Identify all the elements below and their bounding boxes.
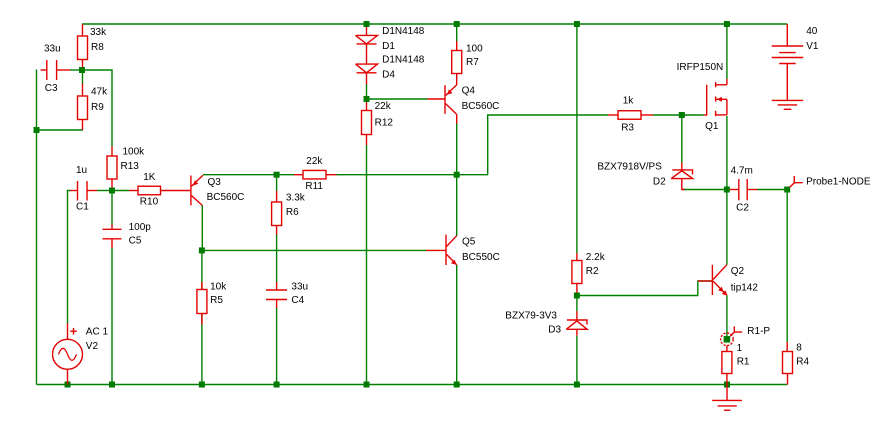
wire junction column R13/C5 bbox=[111, 191, 113, 225]
label Q4 bbox=[462, 86, 500, 113]
svg-text:R8: R8 bbox=[91, 42, 104, 53]
svg-text:AC 1: AC 1 bbox=[86, 327, 109, 338]
svg-text:V2: V2 bbox=[86, 341, 99, 352]
wire R3 right to Q1 gate bbox=[653, 114, 704, 116]
label R2 bbox=[586, 252, 606, 277]
node junction top rail Q1 drain bbox=[724, 21, 730, 27]
svg-text:10k: 10k bbox=[210, 282, 227, 293]
capacitor C1 1u bbox=[70, 181, 109, 201]
node junction V2 bottom rail bbox=[65, 382, 71, 388]
svg-text:V1: V1 bbox=[806, 41, 819, 52]
svg-text:D2: D2 bbox=[653, 177, 666, 188]
svg-text:R12: R12 bbox=[375, 118, 394, 129]
resistor R2 2.2k bbox=[572, 253, 582, 293]
svg-text:100p: 100p bbox=[129, 222, 152, 233]
label Q3 bbox=[207, 177, 245, 203]
svg-text:D1N4148: D1N4148 bbox=[382, 26, 425, 37]
wire D3 top lead bbox=[576, 296, 578, 312]
svg-text:22k: 22k bbox=[375, 101, 392, 112]
node junction left vertical/R9 bbox=[34, 127, 40, 133]
wire R7 top lead from rail bbox=[456, 24, 458, 41]
label R12 bbox=[375, 101, 394, 129]
svg-text:22k: 22k bbox=[306, 156, 323, 167]
svg-text:C1: C1 bbox=[76, 202, 89, 213]
svg-text:BZX7918V/PS: BZX7918V/PS bbox=[597, 162, 662, 173]
label V1 bbox=[806, 26, 819, 52]
svg-text:D4: D4 bbox=[382, 70, 395, 81]
label D4 bbox=[382, 55, 425, 81]
svg-text:33u: 33u bbox=[291, 282, 308, 293]
wire R12 bottom to rail bbox=[366, 145, 368, 385]
label D2 bbox=[597, 162, 666, 188]
svg-text:C3: C3 bbox=[45, 83, 58, 94]
svg-text:R1-P: R1-P bbox=[747, 326, 770, 337]
label C3 bbox=[44, 44, 61, 95]
label R9 bbox=[91, 87, 108, 114]
svg-text:1k: 1k bbox=[623, 96, 635, 107]
node junction Q5 emitter rail bbox=[454, 382, 460, 388]
svg-text:BC560C: BC560C bbox=[207, 192, 245, 203]
label R3 bbox=[621, 96, 634, 134]
label D1 bbox=[382, 26, 425, 52]
wire Q4 collector to junction bbox=[456, 123, 458, 175]
wire R11 left segment bbox=[277, 174, 294, 176]
wire C4 bottom to rail bbox=[276, 308, 278, 385]
svg-text:C2: C2 bbox=[736, 203, 749, 214]
label V2 bbox=[86, 327, 109, 353]
wire Q1 drain up to rail bbox=[726, 24, 728, 79]
label C1 bbox=[76, 165, 89, 213]
label D3 bbox=[505, 311, 561, 336]
ground at R1 bottom bbox=[712, 385, 742, 411]
svg-text:1u: 1u bbox=[76, 165, 87, 176]
svg-text:100k: 100k bbox=[123, 147, 146, 158]
diode D4 D1N4148 bbox=[356, 64, 378, 84]
resistor R5 10k bbox=[197, 282, 207, 325]
svg-text:C5: C5 bbox=[129, 236, 142, 247]
node junction R5 bottom rail bbox=[199, 382, 205, 388]
capacitor C4 33u bbox=[266, 282, 287, 308]
svg-text:BC560C: BC560C bbox=[462, 101, 500, 112]
battery V1 40 bbox=[772, 24, 804, 100]
zener diode D3 BZX79-3V3 bbox=[566, 311, 587, 336]
svg-text:R5: R5 bbox=[210, 295, 223, 306]
svg-text:Q2: Q2 bbox=[731, 266, 745, 277]
transistor Q3 BC560C PNP bbox=[191, 175, 203, 205]
label R13 bbox=[121, 147, 146, 173]
label R8 values bbox=[90, 27, 107, 53]
resistor R8 33k bbox=[78, 24, 88, 67]
node junction R13/C1/R10/C5 bbox=[109, 188, 115, 194]
capacitor C3 33u bbox=[41, 60, 80, 80]
svg-text:40: 40 bbox=[806, 26, 818, 37]
svg-text:BC550C: BC550C bbox=[462, 252, 500, 263]
resistor R9 47k bbox=[78, 73, 88, 120]
svg-text:R1: R1 bbox=[737, 357, 750, 368]
wire Q4 base line bbox=[367, 98, 428, 100]
resistor R4 8 bbox=[783, 342, 793, 385]
wire base line y250 to Q5 base bbox=[202, 249, 426, 251]
node junction C5 bottom rail bbox=[109, 382, 115, 388]
node junction C2/probe/R4 bbox=[784, 187, 790, 193]
resistor R1 1 bbox=[722, 346, 732, 385]
wire R11 right to Q4/Q5 junction bbox=[336, 174, 488, 176]
transistor Q2 tip142 NPN bbox=[698, 265, 728, 296]
node junction R2/D3/Q2 base bbox=[574, 293, 580, 299]
mosfet Q1 IRFP150N bbox=[704, 79, 727, 116]
wire Q3 collector down to junction bbox=[201, 205, 203, 250]
svg-text:tip142: tip142 bbox=[731, 283, 759, 294]
wire left vertical from C3 to bottom rail bbox=[36, 70, 38, 385]
label Probe1-NODE bbox=[806, 177, 871, 188]
svg-text:2.2k: 2.2k bbox=[586, 252, 606, 263]
svg-text:Q4: Q4 bbox=[462, 86, 476, 97]
capacitor C5 100p bbox=[103, 225, 122, 249]
svg-text:R13: R13 bbox=[121, 161, 140, 172]
svg-text:R2: R2 bbox=[586, 266, 599, 277]
wire R6 bottom to C4 top bbox=[276, 234, 278, 282]
wire R4 column bbox=[786, 190, 788, 343]
wire Q1 source down to C2 junction bbox=[726, 116, 728, 190]
wire mid column rail to R2 bbox=[576, 24, 578, 253]
wire Q3 emitter feedback line to R11 bbox=[203, 174, 277, 176]
wire C5 bottom to rail bbox=[111, 248, 113, 385]
wire R9 bottom to left vertical bbox=[37, 120, 84, 130]
capacitor C2 4.7m bbox=[730, 179, 758, 200]
diode D1 D1N4148 bbox=[356, 35, 378, 64]
wire Q5 emitter to rail bbox=[456, 265, 458, 385]
wire top supply rail bbox=[82, 23, 787, 25]
node junction R1 bottom rail ground bbox=[724, 382, 730, 388]
node junction R6 top / R11 left bbox=[274, 172, 280, 178]
svg-text:Q5: Q5 bbox=[462, 237, 476, 248]
label R1-P bbox=[747, 326, 770, 337]
transistor Q4 BC560C PNP bbox=[428, 85, 457, 124]
wire Q5 collector up bbox=[456, 175, 458, 236]
svg-text:Q3: Q3 bbox=[208, 177, 222, 188]
svg-text:R6: R6 bbox=[286, 207, 299, 218]
resistor R13 100k bbox=[107, 146, 117, 187]
wire bottom ground rail bbox=[37, 384, 788, 386]
wire riser to R3 line bbox=[488, 115, 608, 175]
resistor R11 22k horizontal bbox=[294, 170, 337, 179]
label R6 bbox=[286, 193, 306, 219]
wire C2 right to probe node bbox=[757, 189, 787, 191]
zener diode D2 BZX7918V/PS bbox=[671, 163, 693, 190]
label C4 bbox=[291, 282, 308, 307]
svg-text:33u: 33u bbox=[44, 44, 61, 55]
wire D4 bottom to Q4 base junction bbox=[366, 85, 368, 100]
svg-text:D3: D3 bbox=[548, 325, 561, 336]
wire Q2 emitter down to R1-P bbox=[726, 295, 728, 336]
label R1 bbox=[737, 343, 750, 368]
svg-text:1K: 1K bbox=[143, 172, 156, 183]
node junction R8/C3/R9 bbox=[79, 67, 85, 73]
wire D3 bottom to rail bbox=[576, 336, 578, 385]
label R4 bbox=[796, 343, 809, 368]
svg-text:1: 1 bbox=[737, 343, 743, 354]
node junction Q3 collector/R5/base line bbox=[199, 247, 205, 253]
resistor R6 3.3k bbox=[272, 191, 282, 235]
node junction top rail D1 bbox=[364, 21, 370, 27]
svg-text:4.7m: 4.7m bbox=[731, 166, 753, 177]
node junction Q1 source/D2/C2/Q2 collector bbox=[724, 187, 730, 193]
svg-text:R11: R11 bbox=[305, 181, 323, 192]
svg-text:100: 100 bbox=[466, 44, 483, 55]
resistor R12 22k bbox=[362, 102, 372, 145]
wire Q2 base net bbox=[577, 281, 713, 296]
label C2 bbox=[731, 166, 753, 214]
resistor R7 100 bbox=[452, 41, 462, 85]
node junction R12 bottom rail bbox=[364, 382, 370, 388]
resistor R10 1K horizontal bbox=[129, 186, 190, 195]
node junction C4 bottom rail bbox=[274, 382, 280, 388]
svg-text:D1: D1 bbox=[382, 41, 395, 52]
svg-text:47k: 47k bbox=[91, 87, 108, 98]
label R10 bbox=[140, 172, 159, 208]
svg-text:BZX79-3V3: BZX79-3V3 bbox=[505, 311, 557, 322]
wire R10 left lead bbox=[112, 190, 129, 192]
label Q2 bbox=[731, 266, 759, 294]
svg-text:Q1: Q1 bbox=[705, 121, 719, 132]
svg-text:IRFP150N: IRFP150N bbox=[677, 62, 724, 73]
svg-text:R9: R9 bbox=[91, 102, 104, 113]
wire D2 top lead bbox=[681, 115, 683, 163]
wire C1 left to V2 plus bbox=[68, 191, 71, 324]
wire Q2 collector up bbox=[726, 190, 728, 265]
svg-text:R4: R4 bbox=[796, 357, 809, 368]
label Q1 bbox=[677, 62, 724, 132]
wire D1 column top bbox=[366, 24, 368, 35]
probe R1-P with node circle bbox=[721, 326, 743, 345]
svg-text:D1N4148: D1N4148 bbox=[382, 55, 425, 66]
svg-text:33k: 33k bbox=[90, 27, 107, 38]
ground for V1 bbox=[772, 100, 804, 109]
svg-text:R7: R7 bbox=[466, 57, 479, 68]
node junction D4/R12/Q4 base bbox=[364, 96, 370, 102]
source V2 AC 1 bbox=[53, 323, 83, 384]
probe Probe1-NODE bbox=[790, 176, 803, 188]
wire R5 column bbox=[201, 250, 203, 384]
wire junction R8-C3-R9 to R13 top bbox=[82, 70, 112, 146]
node junction top rail R7 bbox=[454, 21, 460, 27]
svg-text:C4: C4 bbox=[291, 295, 304, 306]
label R11 bbox=[305, 156, 323, 192]
svg-text:8: 8 bbox=[796, 343, 802, 354]
wire D2 anode to source junction bbox=[683, 189, 727, 191]
label C5 bbox=[129, 222, 152, 247]
node junction R11/Q4-Q5 column bbox=[454, 172, 460, 178]
node junction gate line / D2 bbox=[679, 112, 685, 118]
svg-text:Probe1-NODE: Probe1-NODE bbox=[806, 177, 871, 188]
transistor Q5 BC550C NPN bbox=[426, 235, 457, 265]
label Q5 bbox=[462, 237, 500, 264]
node junction D3 bottom rail bbox=[574, 382, 580, 388]
svg-text:3.3k: 3.3k bbox=[286, 193, 306, 204]
wire R6/C4 column top bbox=[276, 175, 278, 191]
svg-text:R3: R3 bbox=[621, 123, 634, 134]
node junction top rail mid column bbox=[574, 21, 580, 27]
label R5 bbox=[210, 282, 227, 307]
resistor R3 1k horizontal bbox=[608, 111, 653, 120]
label R7 bbox=[466, 44, 483, 69]
svg-text:R10: R10 bbox=[140, 197, 159, 208]
